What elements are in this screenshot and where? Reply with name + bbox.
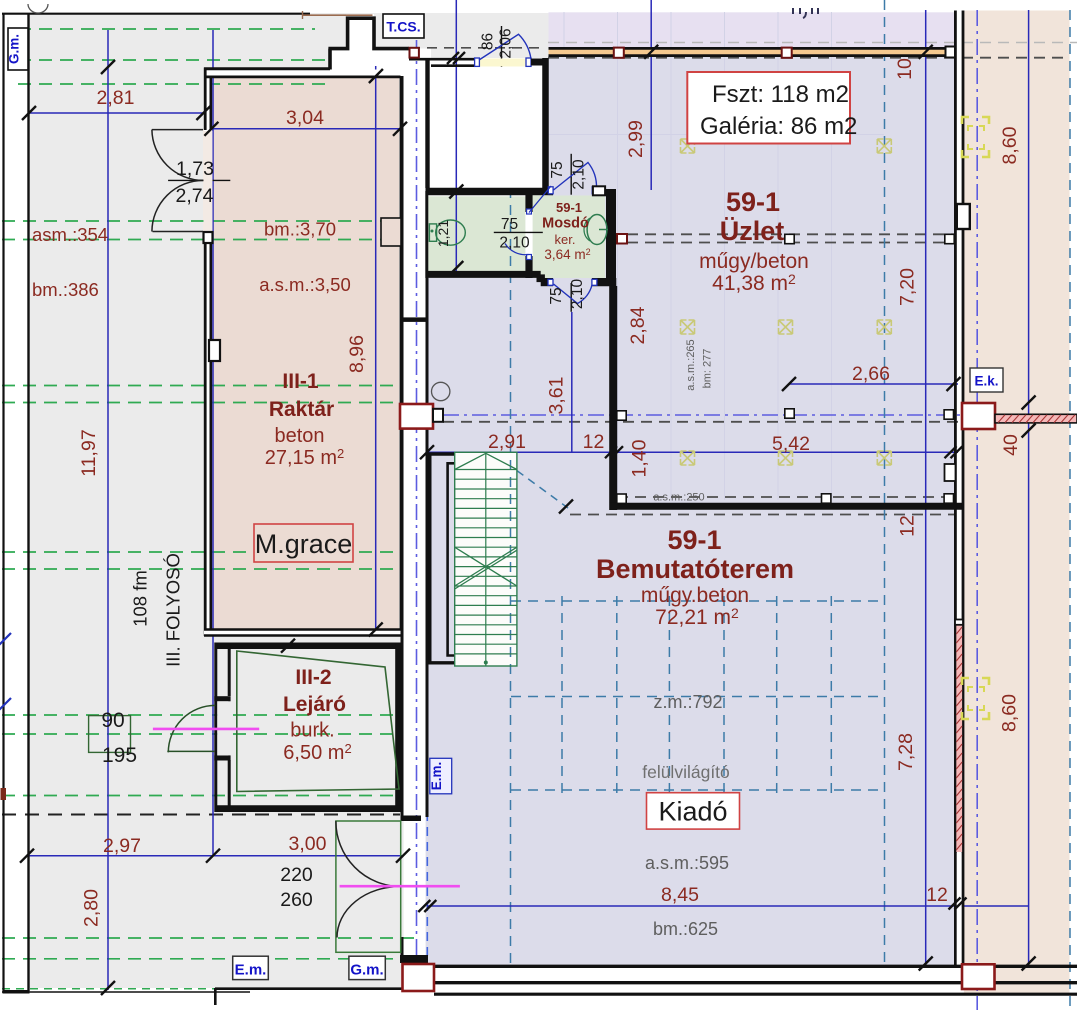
blue dimension line 2,81 y113 [29,112,203,114]
stairwell U wall outer [430,454,455,663]
mosdo wc inner arc [584,218,590,241]
green dashed guide line y385.5 [2,385,400,387]
column marker square at 949.5,239 [945,234,954,243]
svg-text:260: 260 [280,889,313,911]
svg-text:8,45: 8,45 [661,884,699,906]
stairs treads [455,470,517,654]
dimension tick at 566,506.5 [559,500,573,514]
bottom right red column box [962,964,995,989]
wc divider door leaf+arc [505,186,551,255]
dimension tick at 288,645.7 [281,639,295,653]
svg-text:bm.:625: bm.:625 [653,919,718,939]
svg-text:3,61: 3,61 [546,377,568,415]
green dashed guide line y552 [2,551,400,553]
chimney interior white [346,14,374,49]
svg-text:75: 75 [549,161,566,178]
dimension tick at 427,452.2 [420,445,434,459]
svg-text:8,96: 8,96 [346,335,368,373]
svg-text:1,73: 1,73 [176,158,214,180]
svg-text:Fszt: 118 m2: Fszt: 118 m2 [712,81,849,108]
dimension tick at 403,855.7 [396,849,410,863]
shop top wall (tan) [549,47,956,56]
magenta door axis bottom [340,885,460,888]
T.CS. east wall [542,58,549,188]
raktar south wall [204,629,403,637]
svg-text:7,20: 7,20 [897,268,919,306]
dimension tick at 211.4,128.8 [204,122,218,136]
corridor south double door green frame [336,821,401,952]
green dashed guide line y60 [18,59,330,61]
raktar east wall pilaster [381,218,401,246]
svg-text:12: 12 [926,884,948,906]
blue dimension line 8,45 y906 [427,905,1029,907]
svg-text:2,97: 2,97 [103,835,141,857]
blue vertical axis x213 [212,30,214,856]
small dark red mark on west wall [1,788,7,800]
svg-text:műgy/beton: műgy/beton [699,250,809,273]
stairs leader dashed diagonal [517,471,568,508]
svg-text:2,10: 2,10 [571,159,588,190]
mosdo north wall right segment [592,188,605,196]
svg-text:8,60: 8,60 [999,694,1021,732]
east wall small notch lower [945,464,956,481]
east wall east line [962,11,965,967]
west facade wall inner line [27,13,29,991]
bemutatoterem west wall [426,278,429,817]
lavender west part (around stairs) [426,278,549,966]
mosdo south wall step [537,274,545,282]
svg-text:220: 220 [280,864,313,886]
column marker square at 789.5,413.5 [785,409,794,418]
raktar east wall [400,76,403,636]
E.m. label box rotated [429,758,452,794]
svg-text:90: 90 [101,709,124,732]
column marker square at 948.8,498.5 [944,494,953,503]
violet dash-dot axis y415 [443,414,961,416]
svg-text:11,97: 11,97 [78,429,100,476]
Kiado red box label [647,793,740,829]
top-left circle symbol [28,4,48,13]
lejaro west wall outer line [214,643,217,813]
svg-text:8,60: 8,60 [999,126,1021,164]
dimension tick at 1028.6,963.5 [1022,957,1036,971]
gray dashed line under shop top wall [548,57,1070,59]
svg-text:1,21: 1,21 [435,220,451,247]
svg-text:72,21 m2: 72,21 m2 [655,605,739,629]
column marker square at 621.5,415.5 [617,411,626,420]
brown eaves tick [302,11,304,19]
dimension tick at 213,855.7 [206,849,220,863]
dimension tick at 108,988 [101,981,115,995]
green dashed guide line y939.5 [2,937,414,939]
G.m. label box bottom [349,956,385,979]
svg-text:2,06: 2,06 [498,28,515,58]
lejaro door cap lower [214,755,230,760]
red column square at chimney [410,48,419,58]
blue dimension line 3,04 y128.8 [211,128,400,130]
svg-text:M.grace: M.grace [255,529,353,559]
green dashed guide line y221 [2,220,400,222]
blue dashed axis x427.3 [426,767,428,961]
green dashed guide line y989 short [2,988,214,990]
ceiling fixture x-mark at 687.5,327 [681,320,695,334]
raktar door opening pale fill [204,131,213,231]
mosdo wc bowl [587,215,607,245]
lejaro east wall [395,643,402,813]
top area gray around T.CS. [203,13,549,58]
mosdo south wall [541,278,553,286]
tan wall end white marker [946,47,956,58]
Fszt/Galeria red box [687,72,857,144]
svg-text:III-2: III-2 [295,666,331,689]
mosdo NE corner notch [593,186,605,195]
svg-text:12: 12 [897,515,919,537]
galeria grid dashed rectangle [511,596,884,795]
blue dimension line 2,66 y384 [789,383,958,385]
stairs center line [485,452,487,666]
blue vertical dim line x375.7 (8,96) [375,66,377,630]
magenta door axis lejaro [153,728,259,731]
ceiling fixture x-mark at 687.5,146 [681,139,695,153]
dimension double tick at 456,58 [447,52,465,64]
wc corridor / mosdo divider wall upper [525,195,532,212]
svg-text:E.m.: E.m. [429,762,444,791]
teal dashed axis x510.5 [510,188,512,963]
dimension double tick at 427.3,906 [418,900,436,912]
green dashed guide line y84 [18,83,330,85]
yellow bracket marker bottom [962,678,989,719]
gray dashed pair in shop y234.3 [627,233,954,235]
white pocket under chimney [330,49,431,77]
dimension tick at 925.7,963.5 [919,957,933,971]
corridor east wall below door [401,937,404,963]
svg-text:59-1: 59-1 [667,525,721,555]
mosdo east wall [606,189,616,286]
top cut level text [793,8,818,18]
dimension tick at 1028.6,402.5 [1022,396,1036,410]
svg-text:75: 75 [501,216,518,233]
teal dashed axis x884.5 [884,0,886,963]
teal dashed axis x1070 [1069,10,1071,1010]
svg-text:2,81: 2,81 [97,87,135,109]
svg-text:195: 195 [102,744,137,767]
dimension tick at 925.7,51.8 [919,45,933,59]
gray dashed line y497 [617,496,954,498]
violet dash-dot axis x416.5 [416,40,418,990]
lejaro door cap upper [214,696,230,701]
wc tank rect [429,224,436,241]
violet dash-dot axis x977.2 [976,10,978,1010]
raktar double door upper leaf [152,130,203,181]
black fraction bar raktar door [168,179,230,181]
column marker square at 789.5,239 [785,234,794,243]
svg-text:2,66: 2,66 [852,363,890,385]
svg-text:a.s.m.:3,50: a.s.m.:3,50 [259,274,351,295]
column marker square at 948.8,414.5 [944,410,953,419]
dimension double tick at 957.5,903.5 [949,898,967,910]
svg-text:86: 86 [480,33,497,50]
room III-1 Raktar floor (pink) [211,77,399,629]
blue vertical axis x1028.6 [1028,10,1030,966]
blue vertical dim stub x571.8 (3,61) [571,312,573,452]
dimension tick at 375.7,629.5 [369,623,383,637]
svg-text:III-1: III-1 [282,370,318,393]
svg-text:Mosdó: Mosdó [542,216,589,232]
wc divider wall lower [525,256,532,278]
faint gallery grid lines in shop [548,12,884,500]
wall piece T.CS. to shop [531,59,548,66]
wc dot [431,230,434,233]
dimension tick at 400,128.8 [393,122,407,136]
dimension blue tick at 4,705 [0,698,11,712]
lejaro north wall [215,642,402,649]
stairwell U wall inner [448,463,455,655]
E.k. hatched wall bar [995,414,1077,423]
E.m. red column box [400,404,433,429]
brown eaves line top [302,14,373,16]
svg-text:1,40: 1,40 [629,439,651,477]
stairs outline [455,452,517,666]
svg-text:75: 75 [548,287,565,304]
blue dimension line 2,97/3,00 y855.7 [27,855,404,857]
raktar west wall inner below door [210,232,213,636]
gray dashed pair in shop y242.5 [627,242,954,244]
chimney walls [328,18,409,76]
dimension double tick at 614,452.2 [605,446,623,458]
lavender base (Uzlet + Bemutatoterem) [549,57,956,966]
lejaro door opening white [217,701,228,755]
light gray dashed line above shop wall [548,42,1077,44]
T.CS. room south wall / mosdo north wall [426,188,554,196]
stairs top chevron [455,453,517,469]
east wall notch [957,204,970,229]
svg-text:7,28: 7,28 [895,733,917,771]
corridor floor (III. folyosó gray area) [28,13,404,988]
mosdo south door jambs [548,279,553,285]
dimension tick at 1028.6,430.5 [1022,424,1036,438]
svg-text:3,64 m2: 3,64 m2 [544,247,590,262]
svg-text:burk.: burk. [290,720,334,742]
red square marker on mosdo east wall [617,234,627,244]
raktar west wall white core [204,70,212,630]
lejaro west wall inner line lower [228,760,231,806]
blue vertical axis x925.7 [925,10,927,966]
strip bottom cap [400,955,428,963]
lejaro west wall inner line upper [228,649,231,696]
mosdo south door leaf+arc [554,284,593,304]
svg-text:2,84: 2,84 [627,306,649,344]
blue vertical axis x108 [107,30,109,990]
svg-text:Üzlet: Üzlet [720,216,785,246]
svg-text:a.s.m.:250: a.s.m.:250 [653,492,704,504]
uzlet south wall [610,503,963,510]
dimension tick at 651.2,51.8 [644,45,658,59]
G.m. label rotated top-left [7,28,29,70]
svg-text:Lejáró: Lejáró [283,693,346,716]
svg-text:59-1: 59-1 [726,187,780,217]
top door blue leaf [479,34,531,60]
svg-text:2,10: 2,10 [499,235,530,252]
T.CS. room north wall inner [431,64,475,67]
raktar west wall inner [210,76,213,130]
svg-text:10: 10 [894,58,916,80]
dimension tick at 953.5,384 [947,377,961,391]
dimension tick at 27,855.7 [20,849,34,863]
gray dashed line y421.8 [443,421,961,423]
small square next to E.m. box [433,409,443,422]
svg-text:Kiadó: Kiadó [658,797,727,827]
svg-text:G.m.: G.m. [7,34,22,64]
raktar door jamb cap below [204,232,213,243]
raktar double door lower leaf [152,180,204,231]
svg-text:a.s.m.:265: a.s.m.:265 [685,339,697,390]
WC corridor green room [427,196,525,271]
T.CS. white room [430,60,542,188]
small circle column symbol [432,382,450,400]
svg-text:a.s.m.:595: a.s.m.:595 [645,853,729,873]
E.m. label box bottom [233,956,269,979]
T.CS. room north wall outer [409,58,475,61]
door jamb square left [475,58,480,66]
raktar west wall outer below door [204,232,207,636]
east wall west line [954,11,957,967]
black fraction divider x501.5 top door [501,26,503,67]
dimension tick at 203.4,113 [196,106,210,120]
blue dimension line 2,91/12/5,42 y452.2 [427,451,958,453]
svg-text:III. FOLYOSÓ: III. FOLYOSÓ [163,553,184,667]
raktar door opening pale strip [203,130,212,232]
svg-text:2,99: 2,99 [625,120,647,158]
dimension tick at 29,113 [22,106,36,120]
raktar north wall outer line [204,67,330,70]
lower east wall white core [957,853,962,965]
wc corridor south wall [426,271,541,278]
T.CS. west wall [425,58,429,188]
raktar top wall white core [204,70,401,77]
wc bowl ellipse [436,220,466,245]
gray dashed line y514.5 [570,514,954,516]
white corridor strip with axis [404,49,426,955]
dark dashed line y814.5 [2,814,400,816]
column marker square at 826.2,498.5 [822,494,831,503]
svg-text:59-1: 59-1 [556,200,582,215]
svg-text:6,50 m2: 6,50 m2 [283,741,351,764]
svg-text:G.m.: G.m. [350,962,383,979]
svg-text:27,15 m2: 27,15 m2 [265,446,345,469]
Lejaro room floor [215,643,402,813]
svg-text:41,38 m2: 41,38 m2 [712,271,796,295]
stairs well white [455,452,517,666]
mosdo wc flush line [599,229,608,231]
blue vertical dim line x651.2 (2,99) [650,0,652,190]
svg-text:bm.:3,70: bm.:3,70 [264,219,336,240]
bottom facade ground line3 [434,993,1077,996]
right wing pink strip [964,11,1070,996]
svg-text:T.CS.: T.CS. [386,19,420,35]
svg-text:z.m.:792: z.m.:792 [653,692,722,712]
stairs mid cross [455,547,517,589]
green dashed guide line y734 [2,733,397,735]
raktar north wall inner line [205,76,401,79]
blue fraction divider x571.2 upper door [570,154,572,195]
mosdo north door leaf+arc [554,163,597,191]
dimension blue tick at 4,640 [0,633,11,647]
svg-text:műgy.beton: műgy.beton [641,584,749,607]
svg-text:2,74: 2,74 [176,185,214,207]
west facade wall bottom cap [3,990,30,994]
corridor east wall (strip west line) [401,76,404,821]
G.m. red column box bottom [403,964,435,991]
lejaro south wall [215,805,402,812]
svg-text:12: 12 [583,431,605,453]
mosdo north door jambs [548,187,553,194]
svg-text:Bemutatóterem: Bemutatóterem [596,554,794,584]
svg-text:felülvilágító: felülvilágító [642,762,730,782]
svg-text:3,04: 3,04 [286,107,324,129]
svg-text:108 fm: 108 fm [130,570,151,627]
svg-text:3,00: 3,00 [289,833,327,855]
mosdo south wall right segment [592,278,616,286]
green dashed guide line y715 [2,714,397,716]
strip east line: wc west wall [425,191,428,278]
dimension tick at 375.9,76 [369,69,383,83]
black fraction bar wc door [494,231,543,233]
tan wall column marker 2 [782,48,792,58]
svg-text:beton: beton [274,425,324,447]
gray dashed line at T.CS. y48 [376,47,545,49]
svg-text:2,10: 2,10 [569,279,586,310]
ceiling fixture x-mark at 687.5,458 [681,451,695,465]
E.k. red column box [962,403,995,429]
T.CS. north wall right stub [526,58,531,66]
stairs bottom dot [484,661,488,665]
corridor south double door arcs [336,821,401,937]
door header piece [401,816,421,822]
svg-text:E.m.: E.m. [235,962,267,979]
west facade wall outer line [2,13,4,993]
M.grace red box label [254,524,353,562]
svg-text:2,80: 2,80 [81,889,103,927]
svg-text:bm.:386: bm.:386 [32,279,99,300]
dimension tick at 789,384 [782,377,796,391]
T.CS. label box [383,14,424,38]
tan wall column marker 1 [614,48,624,58]
green dashed guide line y795.5 [2,795,400,797]
east wall hatch strip [956,625,962,852]
svg-text:40: 40 [1000,434,1022,456]
column marker square at 621.5,498.7 [617,494,626,503]
svg-text:2,91: 2,91 [488,431,526,453]
yellow door infill top [479,59,526,67]
svg-text:Raktár: Raktár [269,398,334,421]
purple strip above shop wall [549,12,956,47]
green dashed guide line y958 [2,958,400,960]
dimension double tick at 953.5,452.2 [945,446,963,458]
uzlet west wall [609,286,617,510]
lejaro door leaf+arc green [167,705,215,752]
green dashed guide line y402.5 [2,402,400,404]
svg-text:asm.:354: asm.:354 [32,224,108,245]
raktar west wall outer [204,68,207,131]
green dashed guide line y569 [2,568,400,570]
yellow bracket marker top [962,117,989,157]
dimension tick at 456.3,191.5 [449,185,463,199]
hatch strip top gap [955,620,963,625]
dimension tick at 108,67 [101,60,115,74]
raktar west wall pilaster [209,340,220,361]
90/195 green box [89,716,131,753]
wc divider door jambs [527,209,532,214]
